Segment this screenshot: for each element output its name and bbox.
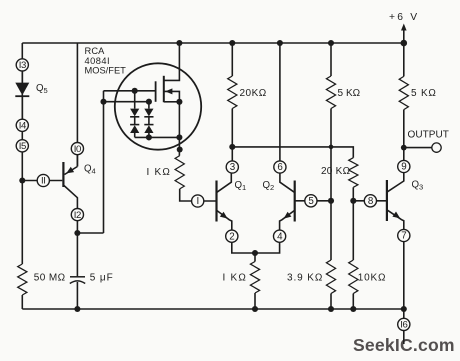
svg-text:I2: I2 [74, 210, 81, 221]
svg-text:50 MΩ: 50 MΩ [34, 273, 66, 284]
svg-text:20KΩ: 20KΩ [240, 88, 267, 99]
svg-text:I4: I4 [19, 121, 27, 132]
svg-text:+6 V: +6 V [389, 12, 419, 23]
svg-text:4084I: 4084I [85, 56, 111, 66]
svg-text:7: 7 [401, 231, 406, 242]
svg-text:RCA: RCA [85, 46, 106, 56]
svg-text:I KΩ: I KΩ [147, 167, 172, 178]
svg-text:OUTPUT: OUTPUT [408, 130, 449, 141]
svg-text:9: 9 [401, 162, 406, 173]
svg-text:I3: I3 [19, 60, 26, 71]
svg-text:I6: I6 [400, 320, 407, 331]
svg-text:5 KΩ: 5 KΩ [411, 88, 437, 99]
svg-text:II: II [41, 176, 46, 187]
svg-text:5 KΩ: 5 KΩ [338, 88, 361, 99]
svg-text:I: I [197, 196, 199, 207]
svg-text:MOS/FET: MOS/FET [85, 66, 127, 76]
svg-text:5 μF: 5 μF [90, 273, 114, 284]
svg-text:I0: I0 [74, 144, 81, 155]
svg-text:10KΩ: 10KΩ [358, 272, 386, 283]
svg-text:I KΩ: I KΩ [223, 272, 248, 283]
svg-text:20 KΩ: 20 KΩ [321, 166, 351, 177]
svg-text:2: 2 [229, 231, 234, 242]
svg-text:I5: I5 [19, 141, 26, 152]
svg-text:3.9 KΩ: 3.9 KΩ [287, 272, 323, 283]
